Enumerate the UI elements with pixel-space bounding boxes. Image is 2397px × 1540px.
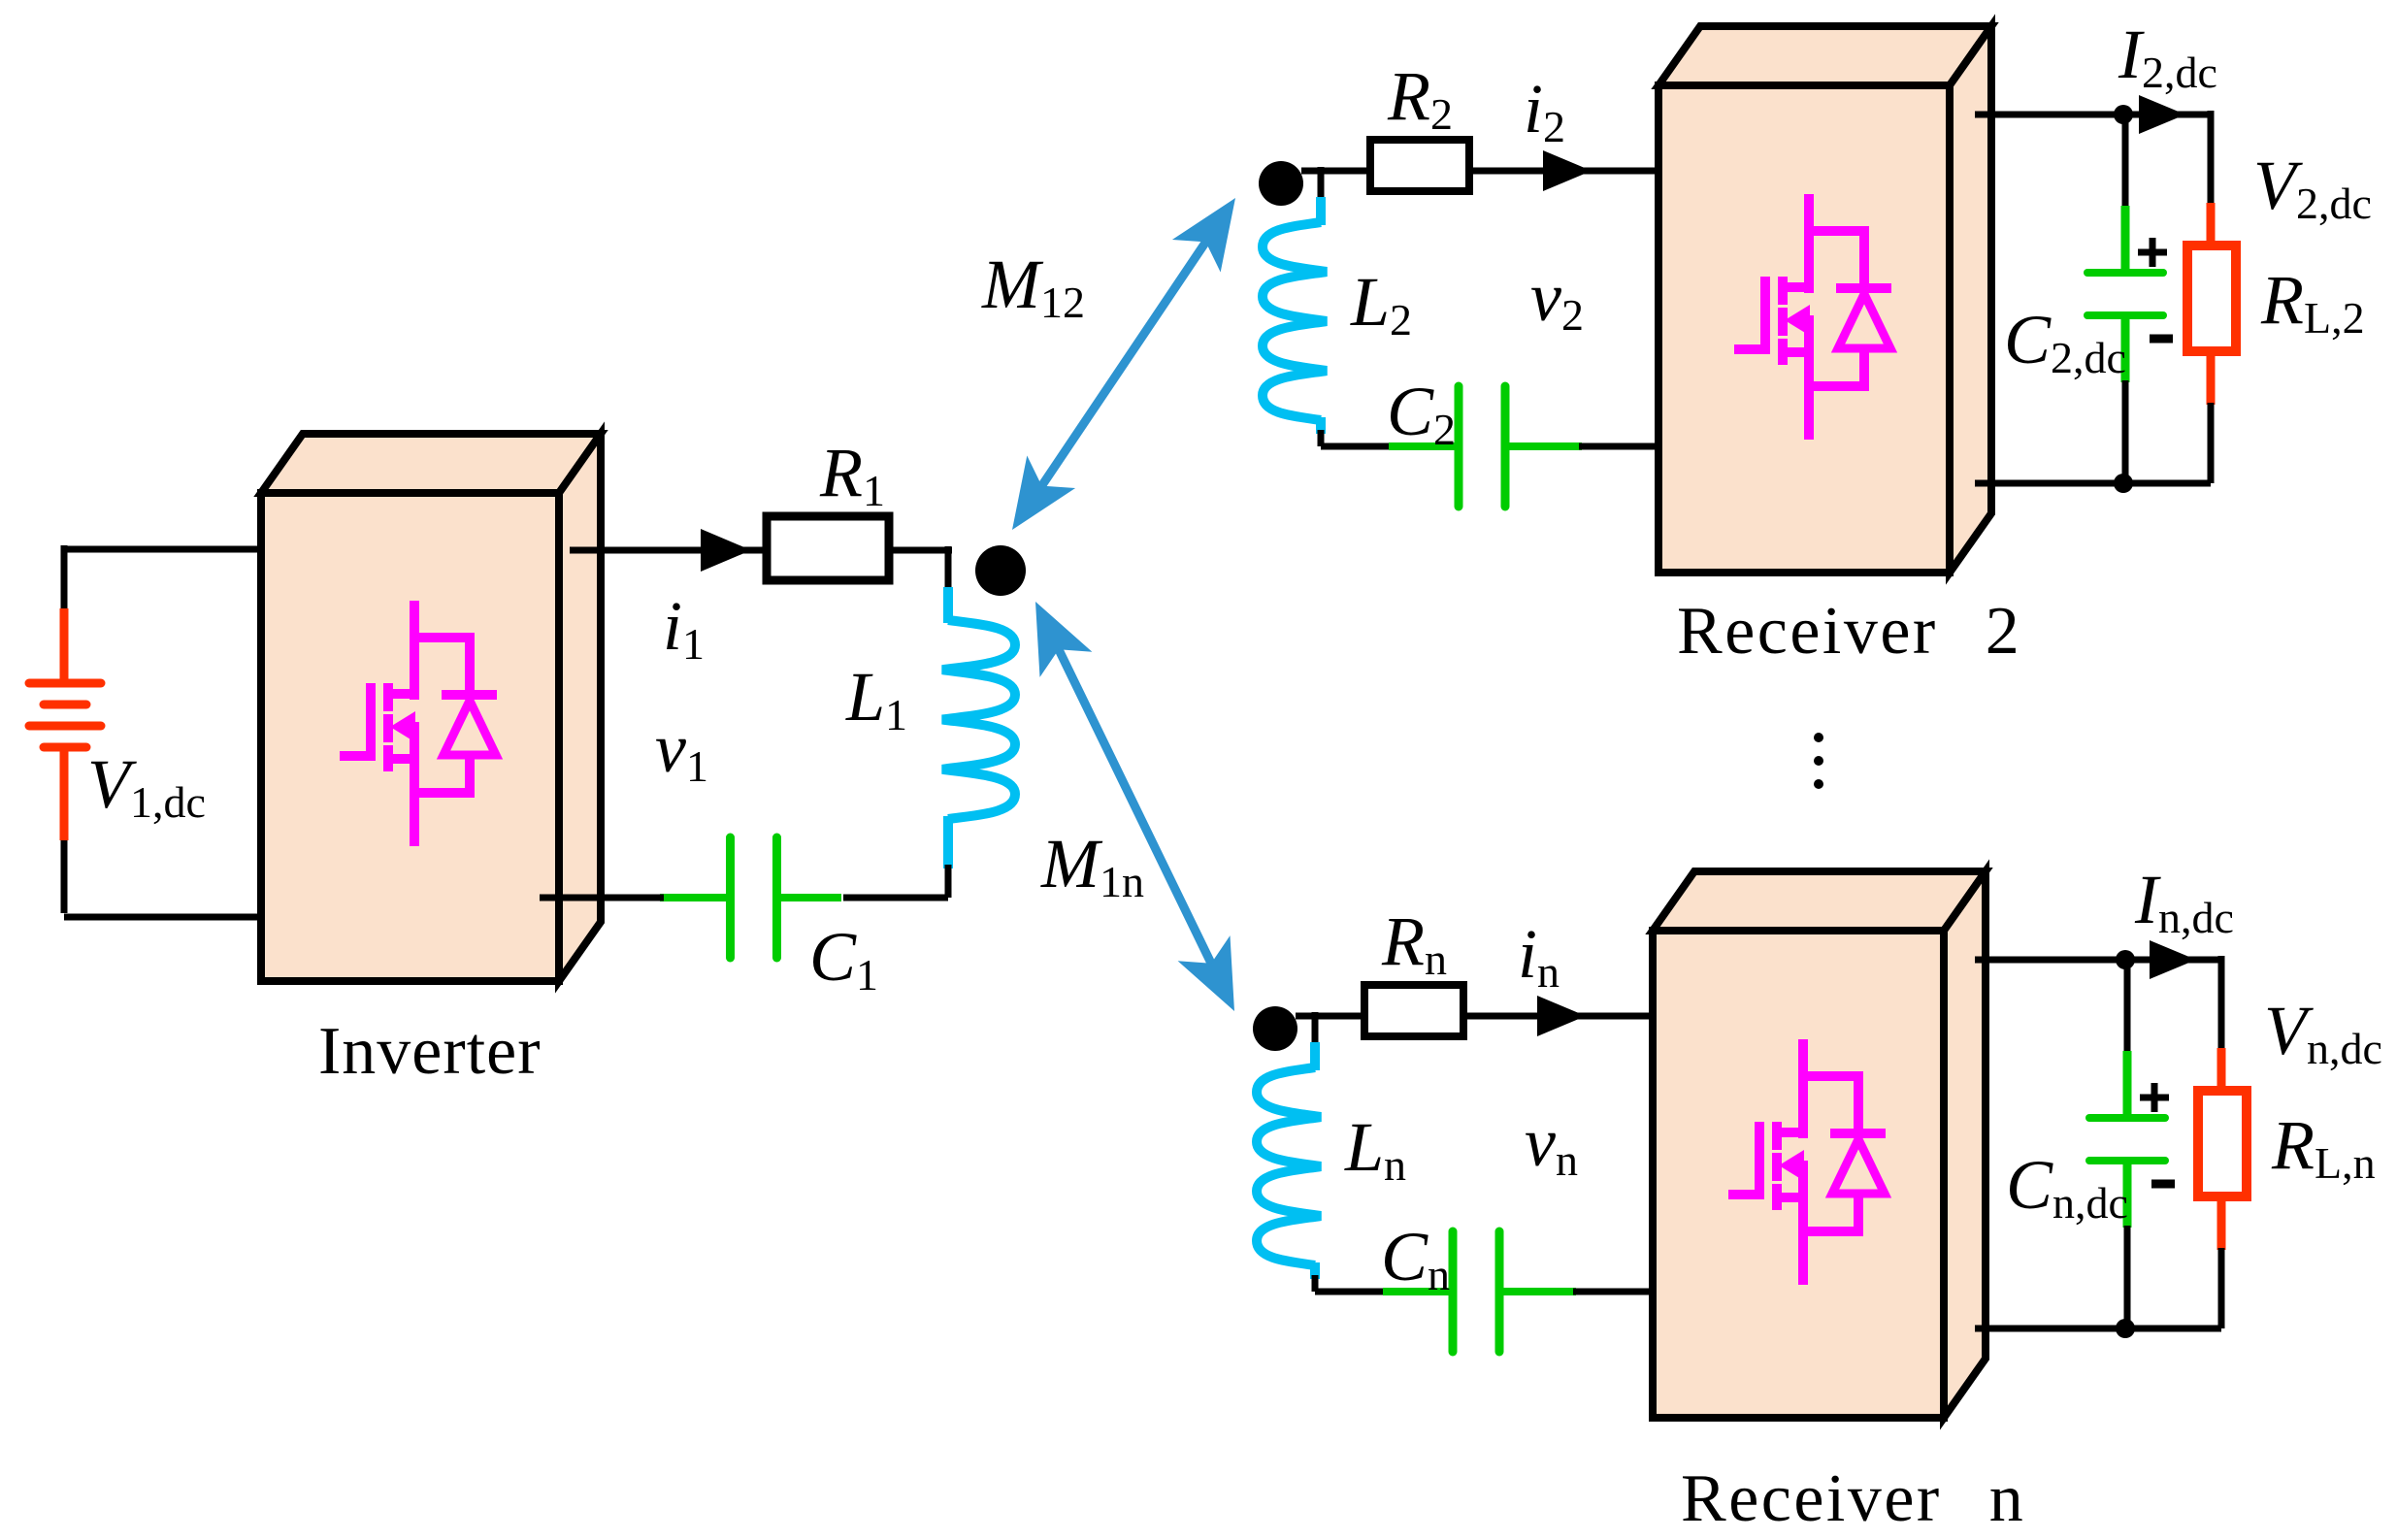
svg-text:Receiver n: Receiver n bbox=[1681, 1461, 2025, 1536]
arrow M12 bbox=[1012, 198, 1235, 530]
receiver n box bbox=[1653, 871, 1986, 1418]
node A (transmitter dot) bbox=[975, 545, 1026, 596]
label Receiver 2 bbox=[1677, 594, 2021, 669]
svg-text:Cn: Cn bbox=[1381, 1218, 1450, 1299]
label L1 bbox=[845, 658, 907, 739]
label Receiver n bbox=[1681, 1461, 2025, 1536]
inductor Ln bbox=[1257, 1042, 1321, 1279]
wire Cn to receiver box bbox=[1573, 1289, 1653, 1295]
capacitor C2 bbox=[1389, 386, 1582, 507]
label Vn,dc bbox=[2264, 992, 2382, 1073]
label C2,dc bbox=[2004, 301, 2126, 382]
junction dot bottom 2 bbox=[2114, 474, 2133, 493]
receiver 2 box bbox=[1658, 26, 1991, 573]
resistor R1 bbox=[767, 516, 889, 580]
wire battery bottom bbox=[64, 840, 262, 917]
arrow M1n bbox=[1035, 602, 1234, 1011]
svg-text:Receiver 2: Receiver 2 bbox=[1677, 594, 2021, 669]
label Rn bbox=[1381, 902, 1447, 984]
label R1 bbox=[819, 434, 885, 515]
battery V1,dc bbox=[29, 608, 101, 840]
wire output top receiver n bbox=[1975, 940, 2221, 979]
node B2 (receiver 2 dot) bbox=[1259, 161, 1303, 206]
wire C1 to inverter bbox=[540, 895, 664, 901]
label v2 bbox=[1530, 258, 1584, 340]
capacitor Cn bbox=[1383, 1231, 1576, 1352]
svg-text:M1n: M1n bbox=[1040, 825, 1144, 906]
svg-text:In,dc: In,dc bbox=[2134, 861, 2234, 942]
transistor symbol inside receiver 2 bbox=[1734, 194, 1891, 440]
svg-text:R2: R2 bbox=[1387, 57, 1453, 139]
wire L1 bottom corner bbox=[843, 865, 948, 898]
svg-text:R1: R1 bbox=[819, 434, 885, 515]
svg-text:C1: C1 bbox=[809, 918, 878, 999]
load resistor RL,2 bbox=[2187, 111, 2236, 483]
label i1 bbox=[663, 587, 705, 669]
label vn bbox=[1525, 1103, 1578, 1185]
label R2 bbox=[1387, 57, 1453, 139]
wire node to Rn bbox=[1296, 1012, 1364, 1045]
junction dot top 2 bbox=[2114, 105, 2133, 124]
wire C2 to receiver box bbox=[1579, 443, 1658, 450]
wire L2 bottom corner bbox=[1321, 430, 1392, 446]
svg-text:RL,n: RL,n bbox=[2271, 1106, 2376, 1188]
wire output bottom receiver n bbox=[1975, 1326, 2221, 1332]
svg-text:V1,dc: V1,dc bbox=[87, 745, 206, 827]
label Cn bbox=[1381, 1218, 1450, 1299]
svg-text:i1: i1 bbox=[663, 587, 705, 669]
plus sign 2 bbox=[2138, 238, 2167, 267]
svg-text:I2,dc: I2,dc bbox=[2118, 16, 2217, 97]
label RL,2 bbox=[2260, 261, 2365, 343]
junction dot top n bbox=[2116, 950, 2135, 969]
label C1 bbox=[809, 918, 878, 999]
wire battery top bbox=[64, 545, 262, 611]
label I2,dc bbox=[2118, 16, 2217, 97]
svg-text:L1: L1 bbox=[845, 658, 907, 739]
svg-text:Inverter: Inverter bbox=[318, 1014, 542, 1089]
label V1,dc bbox=[87, 745, 206, 827]
label in bbox=[1518, 915, 1560, 997]
label M1n bbox=[1040, 825, 1144, 906]
svg-text:i2: i2 bbox=[1524, 70, 1565, 151]
plus sign n bbox=[2140, 1083, 2169, 1112]
svg-text:Ln: Ln bbox=[1344, 1108, 1406, 1190]
label v1 bbox=[655, 709, 708, 791]
minus sign 2 bbox=[2150, 335, 2173, 344]
inductor L1 bbox=[942, 587, 1015, 868]
svg-text:v1: v1 bbox=[655, 709, 708, 791]
svg-text:Rn: Rn bbox=[1381, 902, 1447, 984]
svg-text:V2,dc: V2,dc bbox=[2253, 147, 2372, 228]
inductor L2 bbox=[1263, 197, 1327, 434]
svg-text:v2: v2 bbox=[1530, 258, 1584, 340]
label Cn,dc bbox=[2006, 1146, 2128, 1228]
label Inverter bbox=[318, 1014, 542, 1089]
svg-text:Vn,dc: Vn,dc bbox=[2264, 992, 2382, 1073]
svg-text:in: in bbox=[1518, 915, 1560, 997]
svg-text:RL,2: RL,2 bbox=[2260, 261, 2365, 343]
transistor symbol inside inverter bbox=[340, 601, 497, 846]
transistor symbol inside receiver n bbox=[1728, 1039, 1886, 1285]
svg-text:M12: M12 bbox=[981, 246, 1085, 327]
label C2 bbox=[1387, 373, 1456, 454]
capacitor Cn,dc bbox=[2089, 960, 2165, 1328]
resistor Rn bbox=[1364, 985, 1463, 1036]
minus sign n bbox=[2151, 1180, 2175, 1189]
wire Ln bottom corner bbox=[1315, 1275, 1386, 1292]
wire output bottom receiver 2 bbox=[1975, 480, 2211, 487]
wire i2 with arrow bbox=[1469, 150, 1658, 191]
capacitor C2,dc bbox=[2087, 115, 2163, 483]
capacitor C1 bbox=[660, 837, 841, 958]
label In,dc bbox=[2134, 861, 2234, 942]
junction dot bottom n bbox=[2116, 1319, 2135, 1338]
wire R1 to node corner bbox=[889, 546, 952, 589]
node Bn (receiver n dot) bbox=[1253, 1006, 1297, 1051]
label i2 bbox=[1524, 70, 1565, 151]
load resistor RL,n bbox=[2198, 956, 2247, 1328]
label M12 bbox=[981, 246, 1085, 327]
wire output top receiver 2 bbox=[1975, 95, 2211, 134]
svg-text:L2: L2 bbox=[1350, 263, 1412, 344]
svg-text:C2: C2 bbox=[1387, 373, 1456, 454]
label V2,dc bbox=[2253, 147, 2372, 228]
wire in with arrow bbox=[1463, 996, 1653, 1036]
dots between receivers bbox=[1814, 733, 1823, 789]
label Ln bbox=[1344, 1108, 1406, 1190]
label RL,n bbox=[2271, 1106, 2376, 1188]
inverter box bbox=[261, 434, 601, 981]
resistor R2 bbox=[1370, 140, 1469, 191]
wire i1 with arrow bbox=[570, 529, 767, 572]
svg-text:vn: vn bbox=[1525, 1103, 1578, 1185]
wire node to R2 bbox=[1301, 167, 1370, 200]
label L2 bbox=[1350, 263, 1412, 344]
